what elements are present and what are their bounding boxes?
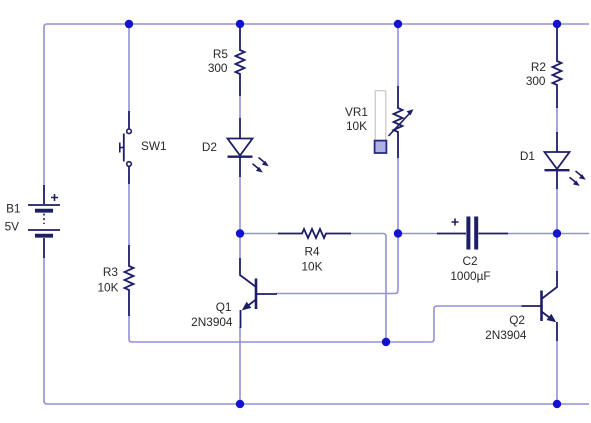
wire R5 to D2 [239,95,241,119]
wire SW1 column top [128,24,130,113]
wire left lower and bottom rail [44,257,589,404]
wire D2 to node A [239,176,241,259]
slider VR1 handle [375,141,387,153]
svg-text:5V: 5V [5,220,20,234]
svg-text:R5: R5 [213,47,229,61]
junction dot node B [394,229,402,237]
wire D1 to node C [556,188,558,272]
wire C2 to node C and right edge [506,233,589,235]
svg-text:R3: R3 [103,265,119,279]
svg-text:2N3904: 2N3904 [191,315,233,329]
svg-text:10K: 10K [346,119,367,133]
wire SW1 to R3 [128,183,130,246]
svg-text:Q1: Q1 [216,300,232,314]
wire node A to R4 [240,233,279,235]
svg-text:D1: D1 [520,149,535,163]
junction dot node C [553,229,561,237]
slider VR1 track [375,91,386,152]
svg-text:VR1: VR1 [345,105,368,119]
junction dot top R2 [553,20,561,28]
transistor Q2 [522,271,558,341]
svg-text:B1: B1 [6,202,20,216]
resistor R2 [553,25,562,108]
LED D1 [545,132,586,189]
wire VR1 column top [397,24,399,87]
junction dot node A [236,229,244,237]
junction dot lower rail R4 [382,338,390,346]
svg-text:C2: C2 [462,254,477,268]
battery B1 [28,185,60,258]
capacitor C2 [437,217,508,250]
wire top rail and left upper [44,24,589,186]
wire VR1 bottom through node B to Q1 base [276,157,398,294]
svg-text:R4: R4 [304,245,320,259]
svg-text:D2: D2 [202,140,217,154]
svg-text:1000µF: 1000µF [450,269,490,283]
junction dot bottom Q1 [236,400,244,408]
wire Q2 emitter to bottom rail [556,341,558,404]
svg-text:SW1: SW1 [141,139,167,153]
junction dot top VR1 [394,20,402,28]
resistor R4 [278,229,351,238]
wire R2 to D1 [556,107,558,133]
resistor R5 [236,25,245,96]
junction dot bottom Q2 [553,400,561,408]
svg-text:2N3904: 2N3904 [485,328,527,342]
wire R4 right drop to lower rail [350,234,386,343]
transistor Q1 [240,258,277,328]
switch SW1 [120,111,132,184]
svg-text:10K: 10K [98,281,119,295]
svg-text:Q2: Q2 [509,313,525,327]
wire node B to C2 [398,233,440,235]
resistor R3 [125,245,134,316]
wire Q1 emitter to bottom rail [239,327,241,404]
svg-text:R2: R2 [531,60,546,74]
svg-text:10K: 10K [302,260,323,274]
potentiometer VR1 [389,86,414,158]
svg-text:300: 300 [526,74,546,88]
junction dot top R5 [236,20,244,28]
svg-text:300: 300 [208,61,228,75]
LED D2 [228,118,269,177]
wire R3 bottom to lower rail to Q2 base [129,306,522,342]
junction dot top SW1 [125,20,133,28]
